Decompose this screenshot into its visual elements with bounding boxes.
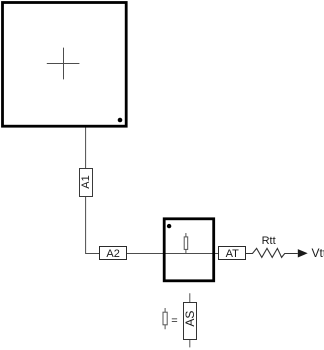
label box AT <box>219 247 246 260</box>
svg-text:Vtt: Vtt <box>312 246 324 260</box>
crosshair (package center mark) <box>47 48 80 80</box>
svg-text:A2: A2 <box>106 248 119 260</box>
svg-text:Rtt: Rtt <box>262 235 276 247</box>
pin 1 dot of termination box <box>167 224 171 228</box>
svg-text:=: = <box>171 315 177 327</box>
wire from A2 through termination box to AT <box>127 253 219 255</box>
svg-text:AT: AT <box>226 248 240 260</box>
arrow to Vtt net <box>298 249 308 257</box>
label box A2 <box>100 247 127 260</box>
label box A1 <box>80 169 93 197</box>
component AS box with leads <box>183 293 197 347</box>
module U1 (BGA package outline) <box>3 3 127 127</box>
series element symbol inside termination box <box>184 233 188 253</box>
legend: series element symbol <box>163 308 167 329</box>
wire from A1 down and right to A2 <box>86 197 100 254</box>
svg-text:AS: AS <box>183 311 197 327</box>
termination component box <box>164 219 214 281</box>
wire from module U1 bottom to A1 <box>85 126 87 169</box>
svg-text:A1: A1 <box>80 175 92 188</box>
resistor Rtt <box>246 248 298 257</box>
pin A1 dot of module U1 <box>118 118 123 123</box>
